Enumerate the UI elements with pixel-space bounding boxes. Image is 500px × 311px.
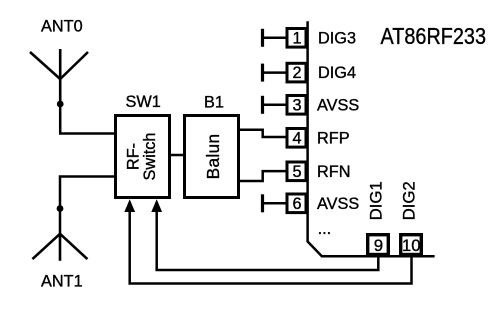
- svg-text:...: ...: [318, 220, 332, 238]
- RF switch SW1 box: [116, 116, 170, 198]
- pin 10 box: [401, 235, 422, 255]
- svg-text:DIG1: DIG1: [366, 181, 385, 220]
- antenna ANT0: [30, 49, 88, 104]
- antenna ANT1: [32, 234, 87, 261]
- svg-text:DIG4: DIG4: [318, 64, 356, 82]
- svg-text:DIG3: DIG3: [318, 29, 356, 47]
- pin 4 box: [287, 129, 306, 148]
- svg-text:AVSS: AVSS: [317, 96, 359, 114]
- wire ANT0 to SW1 RF1 input: [60, 104, 116, 134]
- arrowhead into SW1 (from DIG1): [151, 199, 162, 212]
- svg-text:SW1: SW1: [126, 93, 161, 111]
- svg-text:9: 9: [374, 236, 383, 255]
- svg-text:AVSS: AVSS: [317, 195, 359, 213]
- pin 2 terminal stub: [263, 64, 288, 82]
- pin 6 terminal stub: [263, 194, 288, 212]
- pin 1 box: [287, 29, 306, 48]
- svg-text:5: 5: [292, 163, 301, 181]
- svg-text:4: 4: [292, 129, 301, 147]
- wire B1 to pin 5 RFN: [239, 171, 287, 181]
- RF switch SW1 value label "RF-Switch": [125, 133, 160, 181]
- wire ANT1 to SW1 RF2 input: [60, 177, 116, 234]
- svg-text:RFN: RFN: [317, 163, 350, 181]
- arrowhead into SW1 (from DIG2): [124, 199, 135, 212]
- svg-text:DIG2: DIG2: [399, 181, 418, 220]
- wire B1 to pin 4 RFP: [239, 130, 287, 137]
- pin 3 terminal stub: [263, 96, 288, 114]
- svg-text:1: 1: [292, 29, 301, 47]
- wire pin 9 DIG1 to SW1 right select input: [157, 211, 379, 270]
- svg-text:AT86RF233: AT86RF233: [381, 23, 487, 49]
- svg-text:3: 3: [292, 96, 301, 114]
- wire pin 10 DIG2 to SW1 left select input: [130, 211, 412, 284]
- pin 6 box: [287, 194, 306, 213]
- svg-text:B1: B1: [204, 93, 224, 111]
- pin 3 box: [287, 96, 306, 115]
- balun B1 box: [185, 116, 239, 198]
- pin 1 terminal stub: [263, 29, 288, 47]
- wire SW1 to B1: [169, 154, 185, 157]
- pin 2 box: [287, 63, 306, 82]
- svg-text:RF-: RF-: [125, 143, 143, 170]
- svg-text:Switch: Switch: [141, 133, 159, 181]
- svg-text:ANT1: ANT1: [41, 273, 83, 291]
- svg-text:RFP: RFP: [317, 129, 350, 147]
- junction dot on ANT1 wire: [57, 205, 64, 212]
- junction dot on ANT0 wire: [57, 101, 64, 108]
- svg-text:ANT0: ANT0: [41, 17, 83, 35]
- svg-text:6: 6: [292, 195, 301, 213]
- IC AT86RF233 package edge: [308, 21, 435, 256]
- svg-text:10: 10: [402, 236, 421, 255]
- pin 9 box: [368, 235, 389, 255]
- pin 5 box: [287, 162, 306, 181]
- svg-text:2: 2: [292, 64, 301, 82]
- svg-text:Balun: Balun: [203, 134, 223, 180]
